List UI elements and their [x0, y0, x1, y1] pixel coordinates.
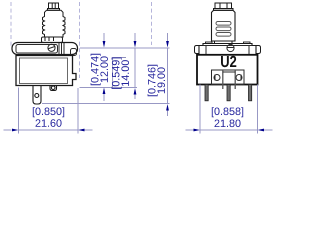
dim 21.60 extension right — [77, 88, 79, 134]
front view collar top bumps — [206, 42, 251, 44]
dim 12.00 line — [103, 33, 106, 101]
pin 3 — [249, 85, 252, 101]
front view latch box — [212, 70, 245, 85]
side view collar divider bars — [59, 43, 64, 54]
dim 21.80 extension left — [199, 85, 201, 134]
front view plunger slots — [216, 22, 231, 37]
dim 21.60 line — [4, 129, 93, 132]
refdes U2 — [221, 56, 236, 67]
dim 21.80 text — [212, 107, 243, 117]
side view collar inner panel — [16, 45, 58, 54]
side view mounting leg — [33, 86, 41, 105]
dim 19.00 line — [166, 33, 169, 116]
front view collar left tab — [195, 46, 200, 54]
centerline dashed right — [151, 2, 153, 45]
front view collar right tab — [256, 46, 261, 54]
side view collar right tab — [71, 49, 77, 56]
dim 12.00 text — [91, 54, 101, 85]
side view loop leg — [50, 86, 57, 91]
front view collar — [199, 44, 256, 56]
dim 19.00 text — [148, 65, 158, 96]
dim 14.00 line — [134, 33, 137, 99]
front view screw — [227, 44, 234, 51]
dim 21.60 extension left — [18, 88, 20, 134]
dim 21.80 extension right — [257, 85, 259, 134]
extension line collar top — [80, 47, 170, 49]
front view neck — [215, 41, 233, 44]
front view latch dividers — [223, 70, 235, 89]
side view plunger cap — [48, 3, 60, 10]
extension line peg bottom — [42, 103, 170, 105]
side view body — [16, 56, 76, 86]
side view collar — [12, 43, 78, 55]
dim 14.00 text frame — [113, 58, 126, 89]
centerline dashed mid — [79, 2, 81, 78]
front view plunger cap — [214, 3, 234, 10]
front view latch circles — [214, 72, 242, 81]
dim 21.60 text — [33, 107, 64, 117]
front view collar inner lines — [203, 46, 252, 56]
pin 2 — [227, 85, 230, 101]
dim 21.80 line — [186, 129, 273, 132]
pin 1 — [205, 85, 208, 101]
extension line body bottom — [80, 87, 138, 89]
centerline dashed left — [10, 2, 12, 47]
front view plunger body — [212, 10, 236, 41]
front view body — [197, 55, 258, 85]
dim 14.00 text — [112, 57, 122, 88]
side view screw — [48, 44, 55, 51]
side view plunger bellows — [43, 10, 66, 37]
side view plunger base flange — [42, 37, 63, 43]
side view body inner rect — [20, 58, 68, 84]
